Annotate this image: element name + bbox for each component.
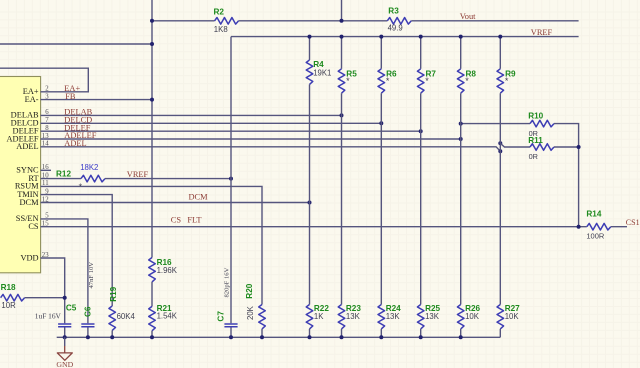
junction rail at x=231.0: [229, 335, 233, 339]
svg-text:ADEL: ADEL: [64, 139, 86, 148]
wire DELAB: [41, 114, 342, 116]
resistor R18: [1, 294, 25, 301]
resistor R7: [420, 37, 422, 69]
junction R9/VREF: [498, 35, 502, 39]
resistor R26: [457, 305, 464, 329]
wire R9 column down: [499, 93, 501, 304]
wire SS/EN to C6 corner: [41, 219, 88, 323]
svg-text:13K: 13K: [346, 312, 361, 321]
svg-text:0R: 0R: [529, 152, 538, 161]
wire DCM to R4/R22 column: [41, 202, 310, 204]
svg-text:DCM: DCM: [189, 193, 209, 202]
wire GND rail: [57, 336, 501, 338]
svg-text:CS: CS: [28, 222, 39, 231]
wire Vout line mid segment: [239, 20, 388, 22]
junction R6/VREF: [379, 35, 383, 39]
svg-text:C7: C7: [216, 311, 225, 322]
wire C6 to rail: [87, 327, 89, 337]
wire ADEL with jog to R9 column: [41, 147, 501, 151]
wire Vout node vertical x=341.5 top: [341, 0, 343, 21]
svg-text:R2: R2: [214, 7, 225, 16]
resistor R23: [338, 305, 345, 329]
resistor R19: [109, 306, 116, 330]
svg-text:10R: 10R: [1, 301, 16, 310]
resistor R25: [417, 305, 424, 329]
svg-text:R18: R18: [1, 283, 16, 292]
wire R24 to rail: [380, 329, 382, 337]
junction CS/R10R11 column: [577, 225, 581, 229]
wire VDD to C5 corner: [41, 258, 65, 323]
svg-text:GND: GND: [56, 360, 73, 368]
wire R26 to rail: [460, 329, 462, 337]
wire EA+ loop: [0, 68, 88, 92]
wire R20 to rail: [261, 329, 263, 337]
wire R11 left jog: [500, 143, 530, 147]
wire RSUM to R20 corner: [41, 186, 263, 304]
ground GND: [64, 337, 66, 346]
junction RT/VREF column: [229, 177, 233, 181]
junction rail at x=381.3: [379, 335, 383, 339]
wire R22 to rail: [309, 329, 311, 337]
junction R4/VREF: [308, 35, 312, 39]
svg-text:R4: R4: [313, 60, 324, 69]
wire VREF column down to C7: [230, 37, 232, 324]
wire VREF rail: [231, 36, 579, 38]
resistor R9: [499, 37, 501, 69]
resistor R24: [378, 305, 385, 329]
resistor R3: [387, 18, 411, 25]
junction rail at x=341.5: [340, 335, 344, 339]
resistor R10: [530, 120, 554, 127]
svg-text:CS1: CS1: [626, 218, 640, 227]
svg-text:R10: R10: [528, 111, 543, 120]
junction rail at x=309.5: [308, 335, 312, 339]
svg-text:ADEL: ADEL: [16, 142, 38, 151]
resistor R8: [460, 37, 462, 69]
junction R7/VREF: [419, 35, 423, 39]
resistor R14: [587, 223, 611, 230]
resistor R5: [341, 37, 343, 69]
junction FB pin/column: [150, 98, 154, 102]
wire R4 to DCM: [309, 84, 311, 202]
svg-text:R12: R12: [56, 170, 71, 179]
IC U1 body: [0, 77, 41, 273]
svg-text:DCM: DCM: [20, 198, 40, 207]
wire R6 column down: [380, 93, 382, 304]
svg-text:47nF 10V: 47nF 10V: [88, 262, 95, 289]
svg-text:CS FLT: CS FLT: [171, 216, 202, 225]
svg-text:R14: R14: [586, 210, 601, 219]
wire R27 to rail: [499, 329, 501, 337]
svg-text:R19: R19: [109, 286, 118, 301]
junction rail at x=64.7: [63, 335, 67, 339]
junction left branch/FB: [150, 42, 154, 46]
junction R10/R11 right column: [577, 145, 581, 149]
junction FB/R2: [150, 19, 154, 23]
svg-text:*: *: [386, 76, 390, 86]
svg-text:820pF 16V: 820pF 16V: [224, 267, 231, 297]
junction DELCD/R6 column: [379, 121, 383, 125]
junction R5/VREF: [340, 35, 344, 39]
svg-text:EA-: EA-: [25, 95, 39, 104]
junction ADELEF/R8 column: [459, 137, 463, 141]
svg-text:C5: C5: [66, 303, 77, 312]
wire left branch to FB column: [0, 43, 152, 45]
svg-text:VDD: VDD: [20, 253, 38, 262]
svg-text:13K: 13K: [386, 312, 401, 321]
svg-text:49.9: 49.9: [388, 23, 403, 32]
svg-text:1uF 16V: 1uF 16V: [35, 311, 62, 320]
resistor R6: [380, 37, 382, 69]
svg-text:*: *: [465, 76, 469, 86]
junction ADEL jog lower: [498, 149, 502, 153]
svg-text:13K: 13K: [425, 312, 440, 321]
resistor R21: [149, 306, 156, 330]
svg-text:Vout: Vout: [460, 12, 476, 21]
svg-text:VREF: VREF: [127, 170, 149, 179]
wire R10 left lead from ADELEF column: [461, 123, 530, 125]
junction DELEF/R7 column: [419, 129, 423, 133]
resistor R20: [259, 305, 266, 329]
wire Vout line right segment: [411, 20, 578, 22]
svg-text:19K1: 19K1: [313, 69, 331, 78]
svg-text:1.54K: 1.54K: [157, 312, 178, 321]
junction rail at x=262.0: [260, 335, 264, 339]
junction R18/VDD column: [63, 296, 67, 300]
svg-text:C6: C6: [84, 306, 93, 317]
wire R4 column down to R22: [309, 203, 311, 305]
junction R11 jog upper: [498, 141, 502, 145]
wire R16 to R21: [151, 282, 153, 307]
junction rail at x=152.0: [150, 335, 154, 339]
svg-text:1K8: 1K8: [214, 25, 228, 34]
svg-text:*: *: [79, 182, 83, 192]
wire R25 to rail: [420, 329, 422, 337]
svg-text:R20: R20: [245, 283, 254, 298]
svg-text:10K: 10K: [505, 312, 520, 321]
svg-text:R11: R11: [528, 136, 543, 145]
svg-text:18K2: 18K2: [80, 163, 98, 172]
svg-text:VREF: VREF: [531, 28, 553, 37]
wire DELEF: [41, 130, 421, 132]
junction rail at x=87.9: [86, 335, 90, 339]
wire TMIN to R19 corner: [41, 195, 113, 306]
resistor R16: [149, 258, 156, 282]
wire R23 to rail: [341, 329, 343, 337]
junction DCM/R4 column: [308, 201, 312, 205]
svg-text:R3: R3: [388, 7, 399, 16]
svg-text:20K: 20K: [246, 305, 255, 320]
junction rail at x=460.7: [459, 335, 463, 339]
wire R14 to CS1: [611, 226, 627, 228]
resistor R27: [497, 305, 504, 329]
wire FB column vertical x=152: [151, 0, 153, 258]
wire CS to R14: [41, 226, 587, 228]
resistor R4: [309, 37, 311, 60]
wire RT pin to R12: [41, 178, 82, 180]
wire C7 to rail: [230, 327, 232, 337]
wire FB pin to column: [41, 99, 153, 101]
wire R7 column down: [420, 93, 422, 304]
svg-text:FB: FB: [65, 92, 76, 101]
resistor R2: [215, 18, 239, 25]
wire Vout line left segment: [152, 20, 215, 22]
junction R10/ADELEF column: [459, 122, 463, 126]
svg-text:60K4: 60K4: [117, 312, 136, 321]
pin stub SYNC: [41, 169, 52, 171]
wire R19 to rail: [111, 330, 113, 337]
wire R10 right to corner down: [554, 124, 579, 227]
wire ADELEF: [41, 138, 461, 140]
svg-text:*: *: [346, 76, 350, 86]
wire R5 column down: [341, 93, 343, 304]
wire R18 to VDD column: [25, 297, 65, 299]
capacitor C7: [224, 324, 237, 327]
wire C5 to rail: [64, 327, 66, 337]
capacitor C6: [81, 324, 94, 327]
svg-text:*: *: [425, 76, 429, 86]
junction DELAB/R5 column: [340, 113, 344, 117]
junction rail at x=112.2: [110, 335, 114, 339]
capacitor C5: [58, 324, 71, 327]
wire R8 column down: [460, 93, 462, 304]
resistor R22: [306, 305, 313, 329]
junction R2/R3 node: [340, 19, 344, 23]
junction rail at x=420.7: [419, 335, 423, 339]
wire DELCD: [41, 122, 382, 124]
wire R11 right lead: [554, 146, 579, 148]
junction R8/VREF: [459, 35, 463, 39]
resistor R11: [530, 144, 554, 151]
svg-text:1.96K: 1.96K: [157, 266, 178, 275]
svg-text:1K: 1K: [314, 312, 324, 321]
resistor R12: [81, 175, 105, 182]
svg-text:100R: 100R: [586, 232, 605, 241]
svg-text:10K: 10K: [465, 312, 480, 321]
wire R12 to VREF column: [105, 178, 231, 180]
svg-text:*: *: [505, 76, 509, 86]
wire R21 to rail: [151, 331, 153, 338]
